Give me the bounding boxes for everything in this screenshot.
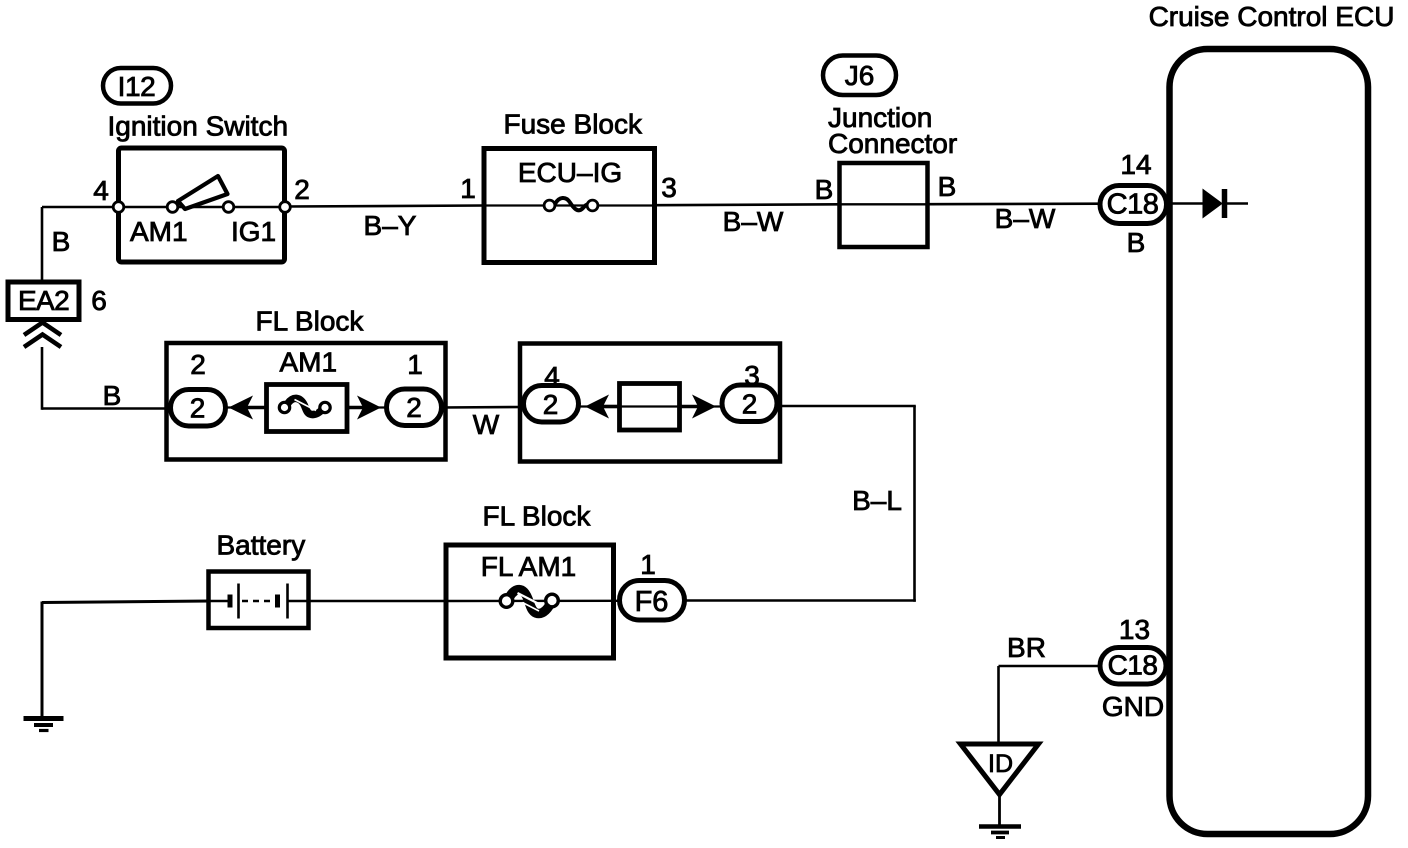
FL block 1 box: [167, 343, 446, 460]
svg-text:B: B: [52, 226, 71, 257]
svg-text:AM1: AM1: [130, 216, 188, 247]
svg-text:2: 2: [190, 349, 206, 380]
svg-text:4: 4: [93, 175, 109, 206]
svg-text:GND: GND: [1102, 691, 1164, 722]
connector C18 pin 14 oval: [1100, 186, 1167, 224]
svg-text:B: B: [103, 380, 122, 411]
junction connector J6 box: [840, 163, 928, 247]
fuse terminal left: [279, 402, 289, 412]
fuse terminal left: [544, 200, 555, 211]
wire: pin4 to left drop: [42, 206, 118, 209]
svg-text:Cruise Control ECU: Cruise Control ECU: [1149, 1, 1395, 32]
svg-text:1: 1: [460, 173, 476, 204]
ignition switch box I12: [119, 148, 285, 262]
wire: EA2 chevrons down to FL block row: [41, 347, 44, 410]
svg-text:2: 2: [190, 393, 206, 424]
svg-text:BR: BR: [1007, 632, 1046, 663]
wire through FL block 3: [446, 600, 619, 603]
terminal oval 2 (left): [524, 386, 579, 423]
wire: through ignition switch (inside box): [118, 206, 286, 208]
wire: corner to battery: [42, 601, 210, 603]
switch lever: [178, 176, 228, 209]
FL block 3 box: [446, 545, 614, 658]
wire: vertical drop to EA2: [41, 207, 44, 283]
ground symbol (ID): [979, 824, 1021, 829]
battery box: [209, 572, 309, 629]
connector EA2 box: [8, 282, 79, 320]
wire: through FL block 2: [578, 405, 722, 407]
svg-text:B–W: B–W: [995, 203, 1056, 234]
arrow (pointing right): [692, 395, 716, 419]
svg-text:6: 6: [91, 285, 107, 316]
svg-text:2: 2: [406, 392, 422, 423]
wire: through fuse block: [484, 204, 655, 206]
svg-text:C18: C18: [1107, 189, 1159, 221]
wire: through junction box (inside): [840, 203, 928, 205]
svg-text:B: B: [1127, 227, 1146, 258]
svg-text:I12: I12: [118, 71, 156, 102]
wire: C18 pin 13 to ground drop, BR: [999, 665, 1102, 668]
connector oval I12: [103, 68, 171, 104]
svg-text:C18: C18: [1108, 650, 1158, 681]
svg-text:B: B: [815, 174, 834, 205]
wire: through FL block 1: [226, 406, 386, 408]
wire: ignition to fuse block, B-Y: [286, 206, 484, 207]
diode cathode bar: [1222, 189, 1228, 218]
ground symbol (battery): [24, 716, 64, 721]
wire: battery to FL block: [309, 600, 447, 603]
svg-text:Battery: Battery: [217, 530, 306, 561]
svg-text:F6: F6: [635, 586, 669, 618]
diode anode triangle: [1203, 190, 1222, 218]
svg-text:FL AM1: FL AM1: [481, 551, 576, 582]
fusible link terminal right: [546, 594, 559, 607]
svg-text:FL Block: FL Block: [256, 306, 365, 337]
terminal oval 2 (right): [387, 389, 442, 426]
terminal IG1: [223, 202, 234, 213]
svg-text:FL Block: FL Block: [483, 501, 592, 532]
terminal pin 4: [113, 202, 124, 213]
svg-text:B–Y: B–Y: [364, 210, 417, 241]
terminal oval 2 (right): [722, 385, 777, 422]
wire: through ignition switch: [118, 206, 286, 208]
wire: fuse block to junction connector, B-W: [655, 203, 840, 206]
terminal AM1: [167, 202, 178, 213]
svg-text:B–L: B–L: [852, 485, 902, 516]
svg-text:AM1: AM1: [280, 347, 338, 378]
wire into battery: [209, 600, 231, 602]
svg-text:B–W: B–W: [723, 206, 784, 237]
svg-text:3: 3: [661, 172, 677, 203]
svg-text:J6: J6: [845, 60, 875, 91]
svg-text:2: 2: [543, 389, 559, 420]
shield chevrons under EA2: [24, 323, 61, 336]
FL block 2 box: [520, 344, 780, 462]
wire: F6 to B-L riser: [684, 599, 916, 602]
svg-text:2: 2: [294, 174, 310, 205]
terminal oval 2 (left): [171, 390, 226, 427]
svg-text:EA2: EA2: [18, 285, 69, 316]
wire: triangle to ground: [998, 794, 1001, 826]
fuse terminal right: [320, 402, 330, 412]
wire: junction connector to C18 pin 14, B-W: [928, 202, 1100, 205]
arrow into fuse (left, pointing left): [229, 396, 254, 420]
wire: FL block 2 pin 3 to corner, B-L: [777, 405, 916, 408]
svg-text:W: W: [473, 409, 500, 440]
wire: through fuse block (inside): [484, 204, 655, 206]
wire: FL block 1 to FL block 2, W: [442, 406, 527, 409]
svg-text:13: 13: [1119, 614, 1150, 645]
connector F6 oval: [620, 581, 685, 621]
connector oval J6: [823, 56, 896, 96]
fusible link FL AM1 squiggle: [507, 590, 552, 614]
svg-text:IG1: IG1: [231, 216, 276, 247]
fuse terminal right: [587, 200, 598, 211]
svg-text:B: B: [938, 171, 957, 202]
fuse block box: [484, 149, 655, 263]
SECTION: row1: [42, 204, 1100, 283]
svg-text:ECU–IG: ECU–IG: [518, 157, 622, 188]
svg-text:1: 1: [407, 349, 423, 380]
wire: ground up to battery row corner: [41, 602, 44, 718]
Cruise Control ECU box: [1170, 49, 1369, 834]
svg-text:1: 1: [640, 549, 656, 580]
fuse ECU-IG squiggle: [555, 198, 588, 210]
wire: after diode: [1225, 202, 1249, 205]
wire: through junction connector: [840, 203, 928, 205]
svg-text:Fuse Block: Fuse Block: [504, 109, 643, 140]
svg-text:14: 14: [1120, 149, 1151, 180]
ground point ID triangle: [961, 744, 1039, 795]
empty fuse holder box: [620, 384, 680, 431]
fusible link terminal left: [500, 595, 513, 608]
arrow (pointing left): [585, 395, 609, 419]
svg-text:Ignition Switch: Ignition Switch: [108, 111, 289, 142]
svg-text:2: 2: [742, 389, 758, 420]
fusible squiggle AM1: [285, 398, 325, 414]
wire: C18 into ECU: [1169, 202, 1205, 205]
wire: into FL Block pin 2: [42, 407, 173, 410]
arrow out of fuse (right, pointing right): [357, 396, 381, 420]
svg-text:ID: ID: [988, 750, 1013, 778]
battery plates: [228, 595, 233, 608]
fuse AM1 box: [267, 385, 348, 432]
svg-text:Connector: Connector: [828, 128, 957, 159]
connector C18 pin 13 oval: [1100, 648, 1166, 685]
terminal pin 2: [280, 202, 291, 213]
wire: vertical B-L down to F6 row: [913, 406, 916, 602]
